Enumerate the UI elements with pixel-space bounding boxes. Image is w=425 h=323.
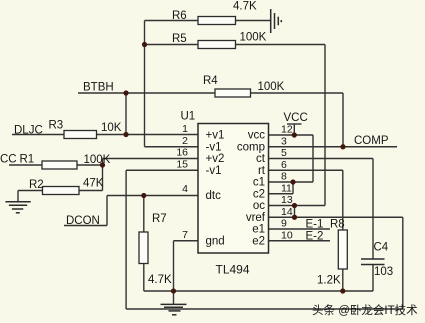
svg-text:16: 16: [176, 147, 188, 159]
svg-text:R3: R3: [49, 120, 64, 132]
svg-text:COMP: COMP: [354, 135, 389, 147]
svg-text:R1: R1: [20, 154, 35, 166]
svg-text:47K: 47K: [83, 178, 104, 190]
svg-text:12: 12: [281, 124, 293, 136]
svg-text:+v2: +v2: [206, 153, 225, 165]
svg-text:e1: e1: [252, 224, 265, 236]
svg-text:vcc: vcc: [248, 130, 266, 142]
svg-text:CC: CC: [0, 154, 17, 166]
svg-text:100K: 100K: [258, 81, 285, 93]
svg-text:头条 @卧龙会IT技术: 头条 @卧龙会IT技术: [312, 303, 418, 317]
svg-text:R2: R2: [29, 179, 44, 191]
svg-text:-v1: -v1: [206, 165, 222, 177]
svg-text:1.2K: 1.2K: [317, 275, 341, 287]
svg-text:R8: R8: [330, 218, 345, 230]
svg-text:10: 10: [281, 229, 293, 241]
svg-text:4: 4: [182, 183, 188, 195]
svg-text:13: 13: [281, 194, 293, 206]
svg-text:14: 14: [281, 206, 293, 218]
svg-text:11: 11: [281, 182, 292, 194]
svg-text:+v1: +v1: [206, 130, 225, 142]
svg-text:E-2: E-2: [306, 230, 324, 242]
svg-text:U1: U1: [181, 111, 196, 123]
svg-text:6: 6: [281, 159, 287, 171]
svg-text:comp: comp: [237, 141, 265, 153]
svg-text:R7: R7: [152, 213, 167, 225]
svg-text:R4: R4: [203, 75, 218, 87]
svg-text:oc: oc: [253, 200, 265, 212]
svg-text:4.7K: 4.7K: [148, 274, 172, 286]
svg-text:103: 103: [374, 266, 393, 278]
svg-text:5: 5: [281, 147, 287, 159]
svg-text:1: 1: [182, 123, 188, 135]
svg-text:3: 3: [281, 135, 287, 147]
svg-text:15: 15: [176, 158, 188, 170]
svg-text:gnd: gnd: [206, 235, 225, 247]
svg-text:C4: C4: [374, 242, 389, 254]
svg-text:BTBH: BTBH: [83, 82, 114, 94]
svg-text:E-1: E-1: [306, 219, 324, 231]
svg-text:rt: rt: [258, 165, 266, 177]
svg-text:-v1: -v1: [206, 141, 222, 153]
svg-text:c2: c2: [253, 188, 265, 200]
svg-text:9: 9: [281, 218, 287, 230]
svg-text:8: 8: [281, 171, 287, 183]
svg-text:R6: R6: [172, 10, 187, 22]
svg-text:7: 7: [182, 229, 188, 241]
svg-text:VCC: VCC: [284, 112, 308, 124]
svg-text:4.7K: 4.7K: [233, 1, 257, 13]
svg-text:vref: vref: [246, 212, 266, 224]
svg-text:e2: e2: [252, 235, 265, 247]
svg-text:R5: R5: [172, 33, 187, 45]
svg-text:DLJC: DLJC: [14, 125, 43, 137]
svg-text:dtc: dtc: [206, 190, 222, 202]
svg-text:2: 2: [182, 135, 188, 147]
svg-text:ct: ct: [256, 153, 266, 165]
svg-text:10K: 10K: [101, 122, 122, 134]
svg-text:100K: 100K: [84, 154, 111, 166]
svg-text:100K: 100K: [240, 32, 267, 44]
svg-text:DCON: DCON: [66, 215, 100, 227]
svg-text:TL494: TL494: [216, 263, 250, 277]
svg-text:c1: c1: [253, 177, 265, 189]
